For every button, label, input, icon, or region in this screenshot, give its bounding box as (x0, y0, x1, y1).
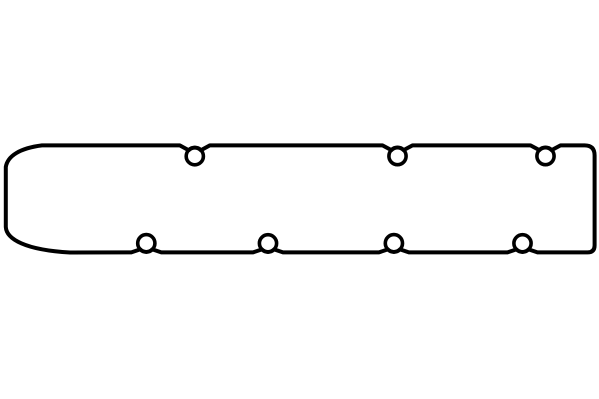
gasket outer outline (6, 145, 595, 252)
bolt hole top 1 (186, 148, 203, 165)
bolt hole top 3 (537, 148, 554, 165)
bolt hole top 2 (389, 148, 406, 165)
bolt hole bottom 3 (385, 235, 402, 252)
bolt hole bottom 1 (138, 235, 155, 252)
bolt hole bottom 4 (514, 235, 531, 252)
bolt hole bottom 2 (259, 235, 276, 252)
